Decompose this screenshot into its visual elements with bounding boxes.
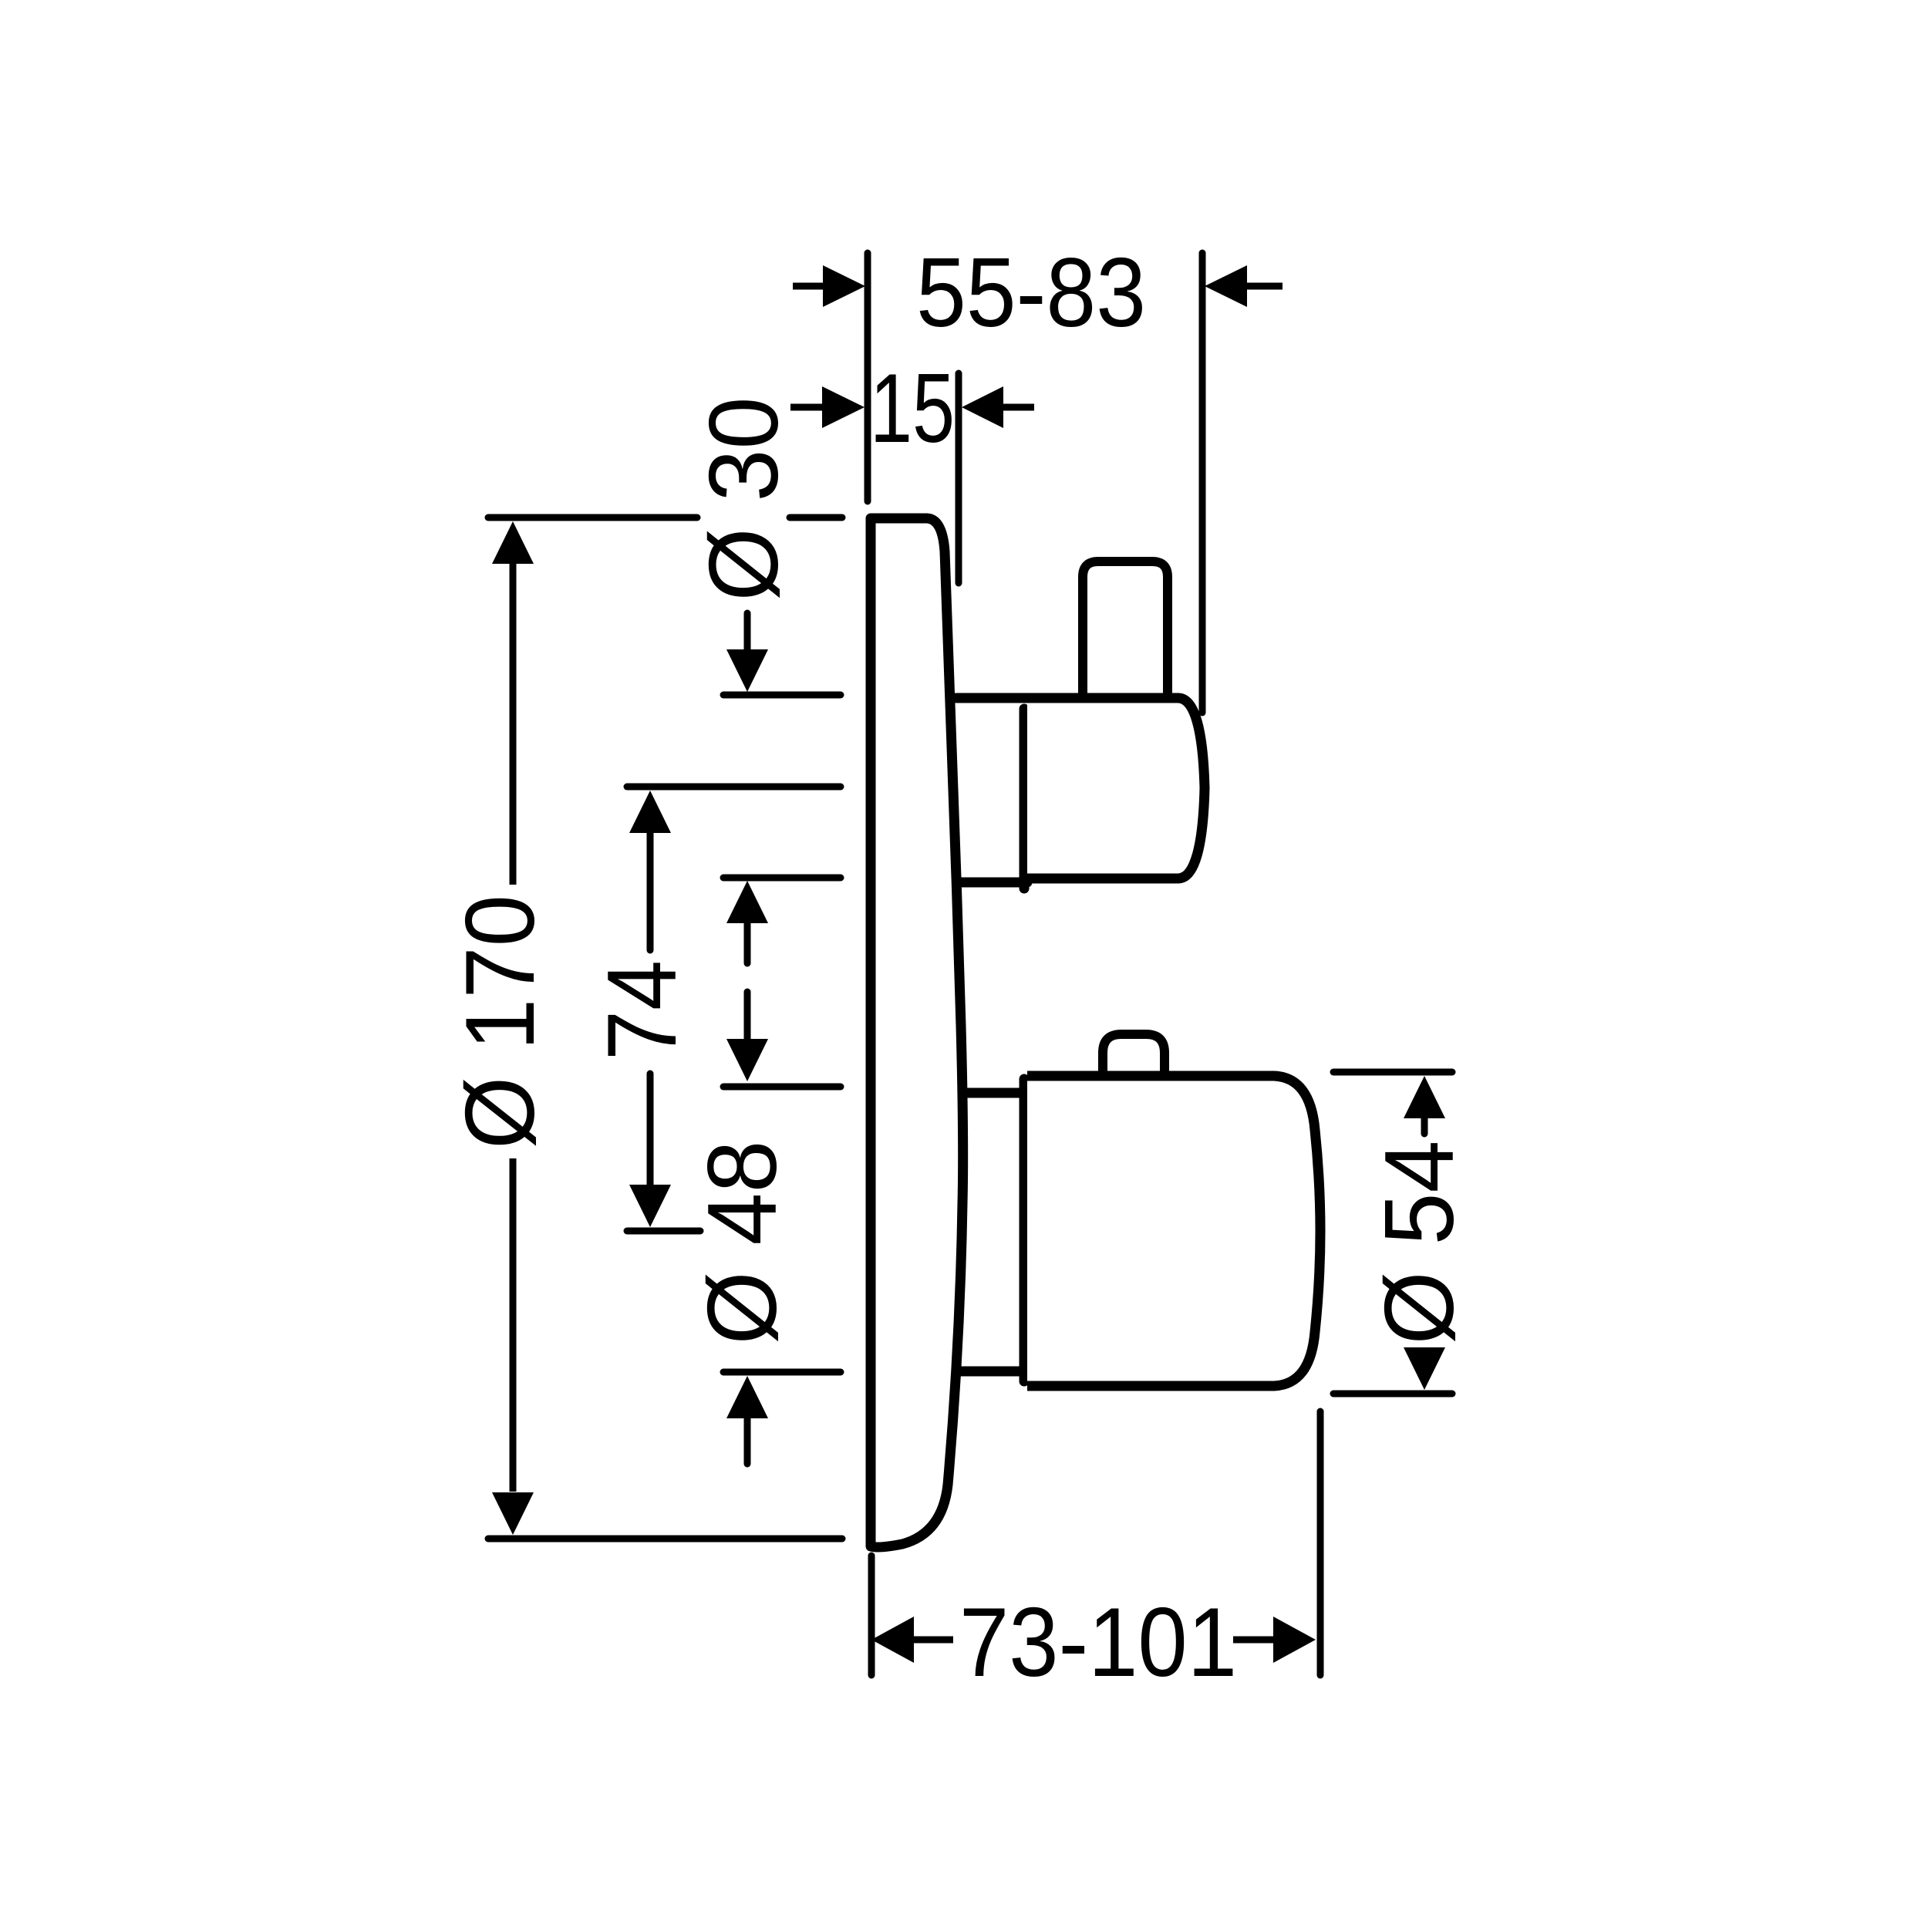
dim O30 lower arrow pointing up [726,881,768,923]
dim 74 top extension line [627,784,841,791]
svg-text:55-83: 55-83 [916,238,1146,347]
dim 73-101 left arrow [871,1617,914,1663]
dim 15 right extension line [956,373,962,583]
dim 74 line upper segment with top arrow [647,833,654,950]
svg-text:74: 74 [587,960,696,1060]
dim O48 upper arrow pointing down [744,992,751,1039]
thermostat indicator nub [1103,1034,1165,1074]
dim O30 lower extension line [723,875,841,882]
dim 74 line lower segment with bottom arrow [647,1074,654,1185]
svg-text:Ø 54: Ø 54 [1364,1141,1474,1345]
svg-text:Ø 30: Ø 30 [689,397,798,602]
dim O30 upper arrow pointing down [744,613,751,649]
dim O30 upper extension line [723,692,841,699]
dim O48 lower arrow pointing up [726,1376,768,1418]
dim O170 bottom extension line [488,1536,842,1543]
bottom valve sleeve bottom line [958,1367,1027,1377]
dim 73-101 right arrow [1273,1617,1316,1663]
top valve body [1027,698,1205,878]
wall plate (escutcheon) side profile [871,518,963,1547]
svg-text:Ø 48: Ø 48 [687,1141,797,1345]
dim O54 upper arrow pointing up [1404,1076,1445,1118]
dim O54 upper extension line [1333,1069,1452,1076]
bottom valve sleeve top line [962,1088,1027,1098]
dim O48 upper extension line [723,1084,841,1091]
dim 55-83 left arrow [793,283,823,290]
top valve divider line [1020,709,1030,888]
dim 73-101 left extension line [868,1556,875,1675]
top valve sleeve top line [956,693,1027,703]
dim O170 line lower segment with bottom arrow [510,1158,517,1492]
svg-text:73-101: 73-101 [959,1587,1237,1697]
bottom valve divider line [1020,1079,1030,1381]
dim 15 left arrow [790,404,822,411]
dim 55-83 left extension line [865,253,871,501]
dim 15 right arrow [1003,404,1034,411]
svg-text:Ø 170: Ø 170 [445,895,554,1149]
dim O54 lower arrow pointing down [1404,1347,1445,1390]
dim O54 lower extension line [1333,1391,1452,1398]
dim O48 lower extension line [723,1369,841,1376]
dim 55-83 right extension line [1199,253,1206,713]
dim O170 line upper segment with top arrow [510,564,517,885]
svg-text:15: 15 [870,353,955,463]
dim 55-83 right arrow [1247,283,1283,290]
dim 74 bottom extension line [627,1228,700,1235]
top valve lever handle [1083,561,1168,696]
dim O170 top extension line [488,514,697,521]
dim 73-101 right extension line [1317,1411,1324,1675]
thermostat handle body [1027,1076,1320,1386]
top valve sleeve bottom line [958,878,1027,888]
